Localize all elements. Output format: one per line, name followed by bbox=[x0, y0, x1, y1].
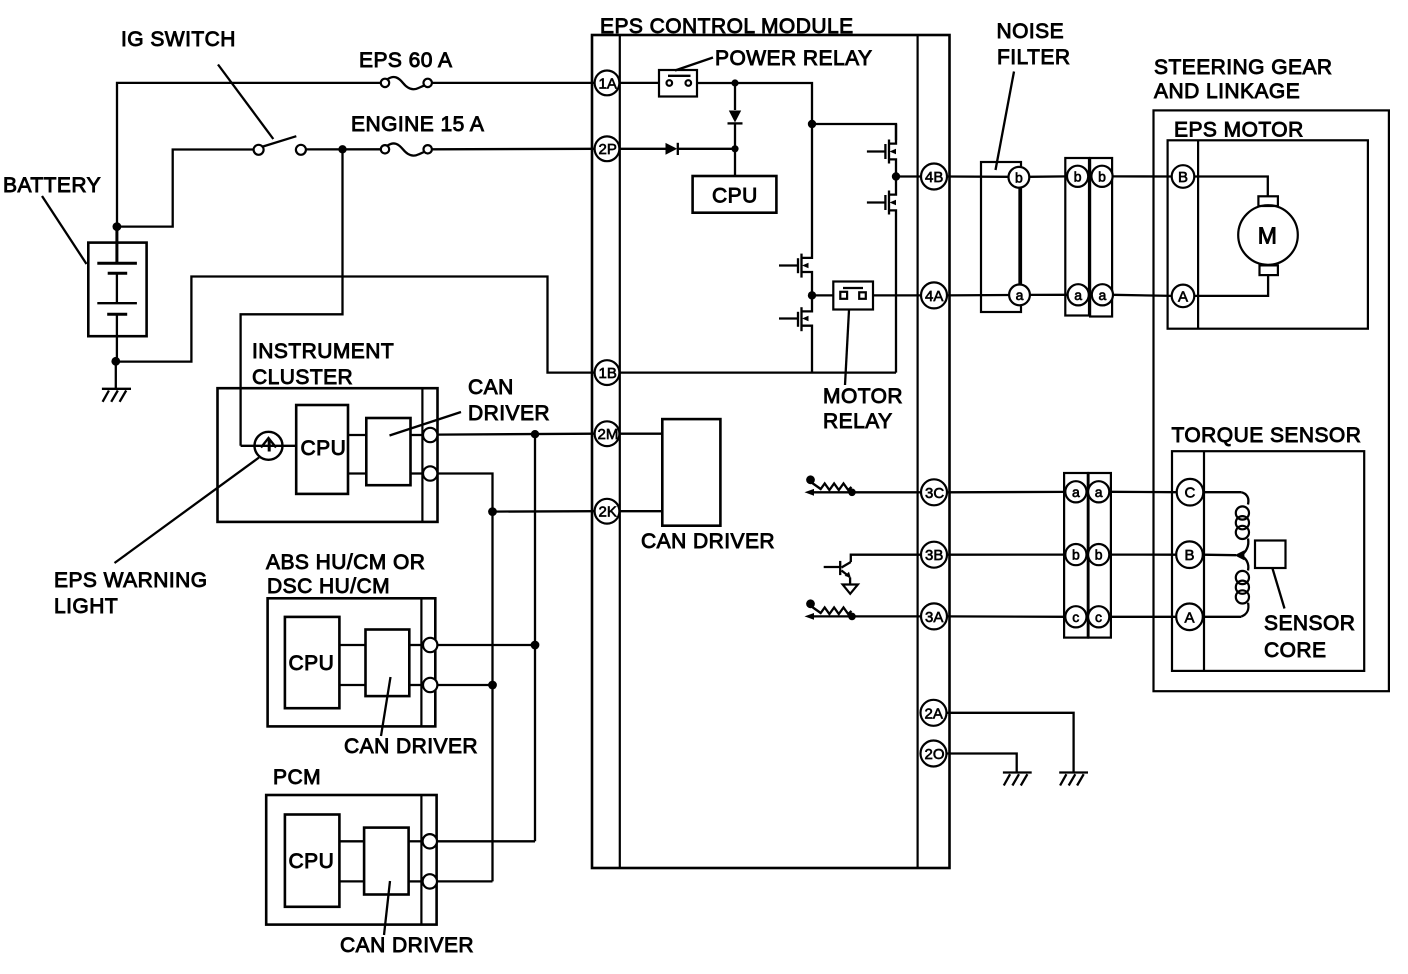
wire connector to A bbox=[1111, 616, 1176, 618]
leader line motor relay to label bbox=[845, 310, 849, 385]
svg-text:1A: 1A bbox=[599, 75, 617, 92]
pin 2K bbox=[595, 499, 620, 524]
svg-text:CPU: CPU bbox=[289, 850, 335, 873]
svg-text:FILTER: FILTER bbox=[997, 46, 1070, 69]
wire IG node down to instrument cluster warning light bbox=[241, 149, 343, 446]
PCM connector bar bbox=[420, 795, 422, 925]
wire PCM CAN-L to bus end bbox=[437, 880, 493, 882]
wire bridge node to motor relay bbox=[812, 294, 833, 296]
fuse EPS 60 A bbox=[381, 79, 389, 87]
CAN driver (PCM) bbox=[364, 828, 409, 895]
terminal A (torque sensor) bbox=[1176, 604, 1203, 631]
leader line to ABS CAN driver box bbox=[381, 677, 391, 736]
svg-text:TORQUE SENSOR: TORQUE SENSOR bbox=[1172, 424, 1362, 447]
CAN driver (instrument cluster) bbox=[366, 418, 410, 485]
svg-text:CAN: CAN bbox=[468, 376, 514, 399]
svg-text:b: b bbox=[1015, 169, 1023, 185]
pin cluster CAN-H bbox=[423, 428, 437, 442]
leader line to PCM CAN driver box bbox=[384, 881, 390, 935]
svg-text:EPS WARNING: EPS WARNING bbox=[54, 569, 208, 592]
terminal c c (sensor connector) bbox=[1065, 606, 1086, 627]
svg-text:DRIVER: DRIVER bbox=[468, 402, 550, 425]
svg-text:STEERING GEAR: STEERING GEAR bbox=[1154, 56, 1333, 79]
svg-text:AND LINKAGE: AND LINKAGE bbox=[1154, 80, 1300, 103]
pin PCM CAN-H bbox=[423, 834, 437, 848]
transistor Q3 (upper MOSFET, 4A high side) bbox=[779, 124, 812, 292]
wire connector to motor B bbox=[1113, 175, 1172, 177]
wire motor relay to 4A bbox=[873, 294, 921, 296]
resistor / sensor supply symbol at 3A bbox=[805, 599, 856, 620]
svg-text:CPU: CPU bbox=[289, 652, 335, 675]
torque sensor connector bar bbox=[1203, 451, 1205, 671]
pin 1A bbox=[595, 71, 620, 96]
node 4A bridge junction bbox=[808, 291, 816, 299]
wire 4A to noise filter bbox=[946, 294, 1010, 297]
wire switch to ENGINE fuse bbox=[306, 148, 381, 150]
terminal a a (motor connector) bbox=[1068, 284, 1089, 305]
node ABS CAN-L junction bbox=[488, 681, 497, 690]
noise filter box bbox=[981, 162, 1021, 312]
diode D2 (horizontal) bbox=[666, 143, 736, 155]
svg-text:A: A bbox=[1178, 288, 1188, 305]
svg-text:SENSOR: SENSOR bbox=[1264, 612, 1355, 635]
pin 3C bbox=[921, 479, 947, 505]
wire 2A to ground bbox=[946, 713, 1074, 772]
svg-text:2A: 2A bbox=[925, 705, 943, 722]
svg-text:ENGINE 15 A: ENGINE 15 A bbox=[351, 113, 484, 136]
wire connector to C bbox=[1109, 491, 1176, 494]
svg-text:CPU: CPU bbox=[301, 437, 347, 460]
svg-text:2P: 2P bbox=[599, 141, 617, 158]
svg-text:2K: 2K bbox=[599, 504, 617, 521]
svg-text:a: a bbox=[1074, 287, 1082, 303]
svg-text:4B: 4B bbox=[925, 169, 943, 186]
wire warning light to CPU bbox=[241, 445, 297, 447]
sensor core bbox=[1255, 541, 1286, 569]
wire battery negative to ground bbox=[115, 361, 117, 388]
svg-text:c: c bbox=[1072, 609, 1079, 625]
wire filter b to connector bbox=[1029, 175, 1067, 178]
leader line EPS WARNING LIGHT to lamp bbox=[115, 458, 260, 564]
transistor Q2 (lower MOSFET, 4B low side) bbox=[867, 177, 896, 373]
svg-text:NOISE: NOISE bbox=[997, 20, 1065, 43]
pin 4B bbox=[921, 164, 947, 190]
diode D1 (vertical) bbox=[728, 83, 743, 149]
svg-text:3C: 3C bbox=[925, 485, 944, 502]
wire 3B to transistor Q5 bbox=[851, 555, 921, 562]
wire bus to module pin 2K bbox=[493, 510, 595, 513]
wire 2O to ground bbox=[946, 754, 1017, 773]
node coil centre tap bbox=[1235, 550, 1245, 560]
wire ENGINE fuse to module pin 2P bbox=[432, 148, 595, 151]
wire supply to right half-bridge bbox=[812, 124, 896, 140]
terminal B (torque sensor) bbox=[1176, 541, 1203, 568]
transistor Q1 (upper MOSFET, 4B high side) bbox=[867, 124, 896, 173]
svg-text:4A: 4A bbox=[925, 288, 943, 305]
wire battery negative to module pin 1B bbox=[116, 277, 595, 373]
svg-text:3B: 3B bbox=[925, 547, 943, 564]
coil L1 (C to B) bbox=[1236, 492, 1249, 555]
battery bbox=[88, 227, 146, 362]
wires CPU to CAN driver (PCM) bbox=[339, 840, 364, 842]
pin ABS CAN-L bbox=[423, 678, 437, 692]
pin 2A bbox=[921, 700, 947, 726]
wire ABS CAN-H to bus bbox=[437, 644, 535, 646]
node 2P / D1 / CPU junction bbox=[731, 145, 738, 152]
terminal A (EPS motor) bbox=[1172, 285, 1195, 308]
wire battery positive up and over to EPS fuse bbox=[117, 83, 381, 227]
CAN driver (ABS) bbox=[366, 630, 410, 697]
wires CAN driver to PCM pins bbox=[409, 840, 424, 842]
steering gear and linkage box bbox=[1154, 110, 1389, 691]
wire filter a to connector bbox=[1030, 294, 1068, 296]
leader line BATTERY to battery box bbox=[42, 196, 87, 264]
wire CAN-H bus vertical bbox=[534, 434, 536, 841]
pin 4A bbox=[921, 282, 947, 308]
svg-text:b: b bbox=[1095, 547, 1103, 563]
wires CAN driver to cluster pins bbox=[411, 434, 424, 436]
svg-text:MOTOR: MOTOR bbox=[823, 385, 903, 408]
svg-text:2M: 2M bbox=[598, 426, 619, 443]
connector block (motor circuit) bbox=[1065, 158, 1112, 317]
wire connector to B bbox=[1111, 553, 1176, 555]
svg-text:CPU: CPU bbox=[712, 185, 758, 208]
svg-text:INSTRUMENT: INSTRUMENT bbox=[252, 340, 394, 363]
wire 4B to noise filter bbox=[946, 175, 1009, 178]
wire C to coil bbox=[1203, 491, 1241, 493]
wire PCM CAN-H to bus end bbox=[437, 840, 535, 842]
noise filter internal link bbox=[1018, 188, 1020, 285]
svg-text:CAN DRIVER: CAN DRIVER bbox=[340, 934, 474, 957]
power relay bbox=[659, 70, 697, 97]
instrument cluster box bbox=[218, 388, 438, 522]
node CAN-L to 2K junction bbox=[488, 507, 497, 516]
svg-text:EPS 60 A: EPS 60 A bbox=[359, 49, 453, 72]
CPU (ABS) bbox=[285, 617, 340, 708]
EPS control module box bbox=[592, 35, 950, 868]
svg-text:CORE: CORE bbox=[1264, 639, 1326, 662]
svg-text:DSC HU/CM: DSC HU/CM bbox=[267, 575, 390, 598]
wire 1A to power relay bbox=[619, 82, 659, 84]
svg-text:b: b bbox=[1074, 168, 1082, 184]
svg-text:ABS HU/CM OR: ABS HU/CM OR bbox=[266, 551, 425, 574]
svg-text:CAN DRIVER: CAN DRIVER bbox=[641, 530, 775, 553]
wire 3A bbox=[852, 615, 921, 617]
leader line CAN DRIVER to cluster CAN driver box bbox=[390, 412, 462, 436]
wire EPS fuse to module pin 1A bbox=[432, 82, 595, 84]
svg-text:CAN DRIVER: CAN DRIVER bbox=[344, 735, 478, 758]
node relay output / diode D1 bbox=[731, 79, 738, 86]
instrument cluster connector bar bbox=[421, 388, 423, 522]
CPU (PCM) bbox=[285, 815, 340, 907]
wire 2M to CAN driver (module) bbox=[619, 433, 662, 435]
wires CPU to CAN driver (cluster) bbox=[348, 434, 366, 436]
leader line NOISE FILTER to filter box bbox=[996, 72, 1015, 171]
terminal C (torque sensor) bbox=[1177, 479, 1204, 506]
terminal b b (motor connector) bbox=[1067, 166, 1088, 187]
ground (2A) bbox=[1059, 773, 1088, 786]
pin PCM CAN-L bbox=[423, 874, 437, 888]
wire power relay to bridge supply bbox=[697, 83, 812, 124]
svg-text:IG SWITCH: IG SWITCH bbox=[121, 28, 236, 51]
leader line POWER RELAY to relay bbox=[675, 58, 713, 71]
ABS connector bar bbox=[420, 598, 422, 726]
pin 2M bbox=[595, 421, 620, 446]
node battery negative junction bbox=[111, 357, 120, 366]
wire A to coil bbox=[1203, 616, 1241, 618]
svg-text:BATTERY: BATTERY bbox=[3, 174, 101, 197]
svg-text:LIGHT: LIGHT bbox=[54, 595, 118, 618]
node ABS CAN-H junction bbox=[531, 641, 540, 650]
svg-text:a: a bbox=[1099, 287, 1107, 303]
coil L2 (B to A) bbox=[1236, 555, 1249, 616]
svg-text:POWER RELAY: POWER RELAY bbox=[715, 47, 872, 70]
EPS motor connector bar bbox=[1197, 140, 1199, 328]
wires CPU to CAN driver (ABS) bbox=[339, 644, 365, 646]
transistor Q4 (lower MOSFET, 4A low side) bbox=[779, 295, 812, 372]
ig switch contacts and arm bbox=[254, 145, 264, 155]
svg-text:B: B bbox=[1185, 547, 1195, 564]
transistor Q5 (3B driver) bbox=[824, 561, 858, 594]
pin ABS CAN-H bbox=[423, 638, 437, 652]
svg-text:b: b bbox=[1098, 168, 1106, 184]
terminal B (EPS motor) bbox=[1172, 165, 1195, 188]
wire cluster CAN-L to bus bbox=[437, 474, 492, 882]
svg-text:3A: 3A bbox=[925, 609, 943, 626]
wire connector to motor A bbox=[1113, 295, 1172, 296]
svg-text:c: c bbox=[1095, 609, 1102, 625]
wire motor to A bbox=[1194, 275, 1268, 296]
ground below battery bbox=[102, 389, 131, 402]
node CAN-H bus junction bbox=[531, 430, 539, 438]
motor M1 bbox=[1238, 196, 1298, 275]
svg-text:2O: 2O bbox=[925, 746, 945, 763]
leader line IG SWITCH to switch bbox=[218, 65, 273, 140]
node IG switch output junction bbox=[338, 145, 346, 153]
pin 2O bbox=[921, 741, 947, 767]
wire 3C to connector bbox=[946, 491, 1067, 494]
connector block (sensor circuit) bbox=[1064, 473, 1111, 638]
svg-text:B: B bbox=[1178, 169, 1188, 186]
pin cluster CAN-L bbox=[423, 466, 437, 480]
node 4B bridge junction bbox=[892, 172, 900, 180]
svg-text:A: A bbox=[1185, 609, 1195, 626]
svg-text:RELAY: RELAY bbox=[823, 410, 893, 433]
module right pin bar bbox=[916, 35, 918, 868]
ground (2O) bbox=[1003, 773, 1032, 786]
svg-text:PCM: PCM bbox=[273, 766, 321, 789]
pin 2P bbox=[595, 136, 620, 161]
wire 2K to CAN driver (module) bbox=[619, 510, 662, 512]
pin 3B bbox=[921, 542, 947, 568]
svg-text:a: a bbox=[1016, 287, 1024, 303]
svg-text:CLUSTER: CLUSTER bbox=[252, 366, 353, 389]
wire bridge to 4B bbox=[896, 175, 921, 177]
node bridge supply junction bbox=[808, 120, 816, 128]
resistor / sensor supply symbol at 3C bbox=[805, 475, 856, 496]
svg-text:EPS MOTOR: EPS MOTOR bbox=[1174, 119, 1304, 142]
terminal b b (sensor connector) bbox=[1065, 544, 1086, 565]
svg-text:1B: 1B bbox=[599, 365, 617, 382]
PCM box bbox=[266, 795, 436, 925]
leader line sensor core to label bbox=[1273, 569, 1285, 609]
wire B to coil junction bbox=[1203, 554, 1236, 557]
terminal b (noise filter) bbox=[1009, 167, 1030, 188]
ABS box bbox=[268, 598, 436, 726]
svg-text:a: a bbox=[1095, 484, 1103, 500]
wire node to CPU bbox=[734, 149, 736, 176]
wire 3C bbox=[852, 491, 921, 493]
CPU (instrument cluster) bbox=[296, 405, 348, 494]
wire battery node to IG switch bbox=[117, 150, 254, 227]
wire cluster CAN-H to module pin 2M bbox=[437, 433, 594, 436]
svg-text:M: M bbox=[1258, 223, 1277, 249]
pin 3A bbox=[921, 603, 947, 629]
node battery positive junction bbox=[113, 222, 122, 231]
CPU (EPS module) bbox=[693, 176, 777, 213]
module left pin bar bbox=[619, 35, 621, 868]
CAN driver (EPS module) bbox=[662, 419, 720, 526]
wire 3B to connector bbox=[946, 553, 1067, 555]
svg-text:C: C bbox=[1185, 485, 1196, 502]
wires CAN driver to ABS pins bbox=[409, 644, 423, 646]
EPS motor box bbox=[1168, 140, 1368, 328]
terminal a (noise filter) bbox=[1009, 285, 1030, 306]
motor relay bbox=[833, 282, 873, 310]
wire 2P to diode D2 bbox=[619, 148, 665, 150]
pin 1B bbox=[595, 360, 620, 385]
fuse ENGINE 15 A bbox=[381, 145, 389, 153]
wire B to motor bbox=[1194, 177, 1268, 197]
svg-text:b: b bbox=[1072, 547, 1080, 563]
torque sensor box bbox=[1172, 451, 1364, 671]
wire 1B ground rail bbox=[619, 371, 896, 373]
wire 3A to connector bbox=[946, 615, 1067, 618]
wire ABS CAN-L to bus bbox=[437, 684, 492, 686]
EPS warning lamp bbox=[255, 432, 283, 460]
terminal a a (sensor connector) bbox=[1065, 481, 1086, 502]
svg-text:a: a bbox=[1072, 484, 1080, 500]
